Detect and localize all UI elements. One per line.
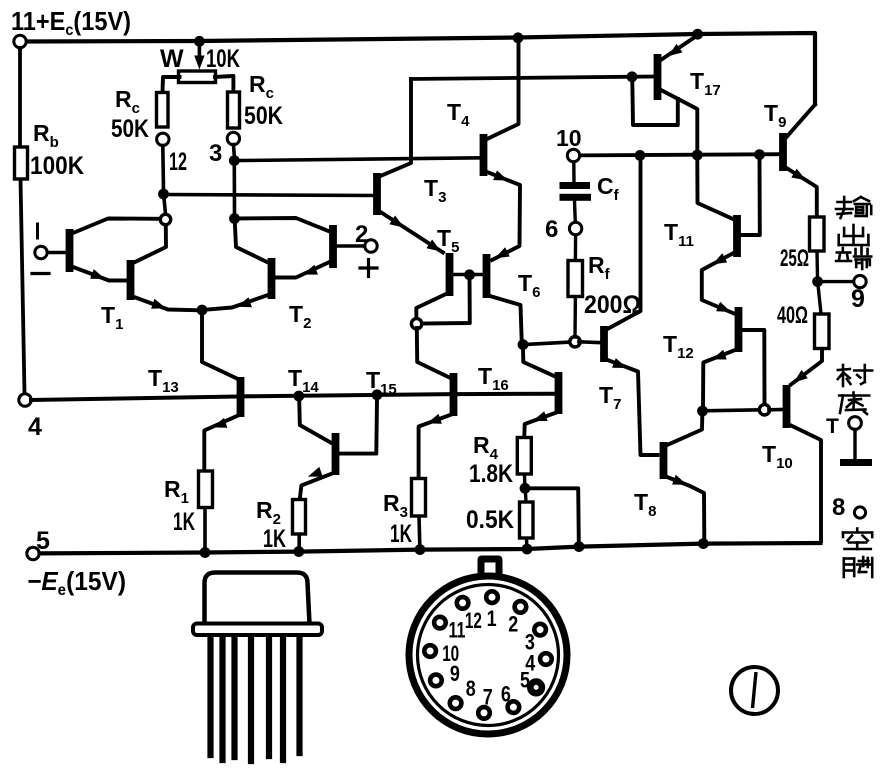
transistor T5 bar	[446, 253, 454, 296]
T3 emitter to T5	[381, 212, 444, 253]
wiper arrow of W	[194, 44, 204, 70]
svg-text:Rf: Rf	[588, 252, 611, 283]
junction node 3	[229, 155, 240, 166]
svg-text:50K: 50K	[111, 115, 149, 143]
transistor T14 bar	[332, 433, 340, 475]
wire W right to Rc right	[215, 76, 233, 91]
svg-text:12: 12	[465, 608, 482, 633]
package can body	[205, 573, 310, 625]
wire Rf node to T7 base	[579, 340, 600, 344]
svg-text:7: 7	[483, 685, 493, 710]
svg-text:1K: 1K	[263, 525, 286, 553]
junction T6 emitter node	[518, 339, 529, 350]
pinout pin numbers	[442, 606, 536, 710]
resistor R2 1K	[293, 500, 306, 535]
svg-text:10: 10	[442, 641, 459, 666]
junction below R4	[520, 483, 531, 494]
terminal 3	[227, 132, 239, 144]
left supply wire 11 to 4	[20, 48, 25, 393]
svg-text:W: W	[160, 45, 184, 73]
junction rail T4	[513, 32, 524, 43]
wire Cf to terminal 6	[573, 201, 577, 222]
wire R1 to -Ee rail	[203, 508, 207, 549]
svg-text:T1: T1	[101, 302, 123, 333]
wire junction right down to rail	[525, 488, 579, 543]
bias rail 4	[31, 394, 555, 400]
wire R4 to junction	[523, 475, 527, 486]
transistor T13 bar	[237, 377, 245, 417]
transistor T16 bar	[555, 372, 563, 414]
T17 emitter from rail	[662, 37, 696, 60]
label T6	[518, 270, 540, 301]
junction node 3 lower	[229, 213, 240, 224]
transistor T2 bar	[268, 258, 276, 299]
T6 lower path down	[490, 296, 522, 341]
junction node 9	[812, 276, 823, 287]
substrate terminal	[849, 417, 862, 430]
svg-text:T17: T17	[690, 68, 721, 99]
terminal 5	[27, 547, 39, 559]
svg-text:T12: T12	[663, 331, 694, 362]
resistor Rc right 50K	[228, 92, 240, 128]
wire terminal 2 to input transistor 2	[337, 244, 365, 248]
label plus	[360, 260, 377, 277]
T1 emitter to common node	[134, 297, 198, 310]
wire 0.5K to -Ee rail	[525, 539, 529, 547]
negative rail -Ee	[40, 543, 821, 553]
label T3	[424, 175, 446, 206]
wire 25ohm to node9	[815, 252, 819, 278]
resistor 0.5K	[520, 502, 534, 538]
junction ring T12 collector	[759, 405, 769, 415]
terminal 12	[157, 133, 169, 145]
junction T15 rail	[372, 389, 383, 400]
svg-text:3: 3	[209, 140, 222, 167]
wire 78 to T17 base	[411, 77, 654, 80]
junction node155 T11	[754, 149, 765, 160]
transistor T7 bar	[600, 326, 608, 362]
junction R1 rail	[200, 547, 211, 558]
label minus	[32, 272, 49, 275]
transistor T3 bar	[373, 173, 381, 215]
label R2	[256, 497, 281, 528]
figure mark 1 in circle	[731, 667, 778, 714]
transistor T8 bar	[660, 442, 668, 479]
svg-text:5: 5	[520, 668, 530, 693]
package leads	[211, 637, 300, 761]
terminal 4	[19, 394, 31, 406]
label T14	[288, 365, 319, 396]
terminal 2	[365, 240, 377, 252]
label 5	[36, 527, 50, 555]
wire T6 node down to T16	[523, 348, 555, 376]
label 4	[28, 413, 42, 441]
label Rb	[33, 120, 59, 151]
resistor 25ohm	[810, 217, 825, 251]
svg-text:T8: T8	[634, 489, 656, 520]
wire terminal 10 down to Cf	[572, 162, 576, 183]
svg-text:2: 2	[355, 221, 368, 248]
wire T14 base	[299, 398, 330, 443]
label 2	[355, 221, 368, 248]
svg-text:Rc: Rc	[115, 86, 140, 117]
terminal 11	[14, 35, 26, 47]
label T2	[289, 301, 311, 332]
resistor R3 1K	[412, 479, 426, 517]
pinout pins	[424, 591, 551, 718]
junction ring left input	[160, 214, 170, 224]
40ohm to T10 emitter	[791, 349, 822, 385]
transistor T1 bar	[127, 260, 135, 300]
wire junction to 0.5K	[524, 490, 528, 502]
pinout inner circle	[418, 585, 559, 726]
pinout tab	[478, 556, 503, 575]
junction Rf bottom	[570, 337, 580, 347]
svg-text:2: 2	[508, 611, 518, 636]
svg-text:10: 10	[556, 125, 582, 151]
wire 155 terminal10 to T9 base	[580, 154, 779, 155]
input tr2 collector to node 3	[235, 218, 330, 232]
wire R3 to -Ee rail	[417, 517, 421, 547]
transistor T15 bar	[450, 373, 458, 416]
label 10	[556, 125, 582, 151]
label 1K R3	[390, 520, 412, 548]
label 1	[36, 224, 39, 238]
svg-text:12: 12	[169, 148, 187, 176]
package flange	[193, 624, 322, 636]
terminal 1	[35, 246, 47, 258]
label T12	[663, 331, 694, 362]
resistor R1 1K	[199, 471, 213, 508]
T9 emitter to 25ohm	[787, 168, 817, 216]
resistor Rc left 50K	[157, 93, 169, 128]
input tr2 emitter to T2 base	[277, 262, 330, 278]
label 6	[545, 216, 558, 243]
label T4	[447, 99, 470, 130]
wire ring to T10 base	[769, 408, 783, 412]
svg-text:6: 6	[501, 681, 511, 706]
T9 collector to +Ec corner	[787, 105, 816, 138]
wire terminal 6 to Rf	[574, 235, 578, 260]
junction T8 T12 node	[697, 406, 708, 417]
T2 collector to node 3	[235, 222, 268, 263]
svg-text:T3: T3	[424, 175, 446, 206]
junction R4branch rail	[574, 541, 585, 552]
T17 collector down to node155	[661, 90, 697, 151]
T1 collector to node12 ring	[134, 225, 166, 263]
wire node 12 to T3 base	[164, 195, 374, 196]
terminal 10	[567, 149, 579, 161]
T10 collector to rail corner	[790, 425, 821, 541]
label 50K right	[244, 102, 283, 130]
label W	[160, 45, 184, 73]
transistor T9 bar	[779, 133, 787, 171]
svg-text:8: 8	[466, 676, 476, 701]
svg-text:Rb: Rb	[33, 120, 59, 151]
T5 lower path to ring	[416, 294, 446, 319]
capacitor Cf	[560, 182, 592, 201]
wire node 12 down	[161, 146, 165, 191]
svg-text:−Ee(15V): −Ee(15V)	[27, 566, 126, 599]
T13 emitter to R1	[204, 416, 237, 470]
wire node9 to terminal 9	[821, 280, 854, 283]
junction ring T5 node	[411, 319, 421, 329]
junction R3 rail	[415, 544, 426, 555]
svg-text:T2: T2	[289, 301, 311, 332]
label 8	[832, 494, 845, 521]
junction common emitters T1 T2	[197, 305, 208, 316]
resistor R4 1.8K	[517, 438, 531, 475]
substrate label T	[826, 415, 839, 438]
potentiometer W 10K	[179, 71, 216, 83]
svg-text:T13: T13	[148, 365, 179, 396]
svg-text:R1: R1	[164, 476, 189, 507]
junction T8 rail	[698, 538, 709, 549]
wire node9 to 40ohm	[818, 285, 821, 314]
svg-text:9: 9	[851, 285, 865, 313]
wire node 3 down to T2 node	[233, 164, 237, 214]
wire node to Rf node	[523, 342, 571, 345]
svg-text:11: 11	[449, 617, 466, 642]
junction T5 T6	[464, 269, 475, 280]
label T15	[366, 367, 397, 398]
transistor T12 bar	[735, 307, 743, 352]
svg-text:1K: 1K	[390, 520, 412, 548]
label T17	[690, 68, 721, 99]
terminal 6	[569, 222, 581, 234]
svg-text:R3: R3	[383, 490, 408, 521]
svg-text:1.8K: 1.8K	[469, 460, 513, 488]
svg-text:T10: T10	[762, 441, 793, 472]
junction node155 T17	[692, 150, 703, 161]
transistor T11 bar	[733, 215, 741, 257]
resistor Rb 100K	[15, 147, 28, 179]
wire W left to Rc left	[163, 77, 180, 92]
svg-text:T11: T11	[664, 219, 694, 250]
label 40ohm	[777, 302, 808, 329]
label Rf	[588, 252, 611, 283]
resistor Rf 200	[568, 261, 583, 297]
junction T14 base	[293, 391, 304, 402]
label 25ohm	[780, 245, 809, 272]
T16 emitter to R4	[524, 411, 555, 436]
wire node 3 down	[232, 145, 237, 157]
svg-text:T6: T6	[518, 270, 540, 301]
T12 emitter to T8 node	[703, 350, 735, 406]
wire Rf down to node	[573, 297, 577, 337]
svg-text:100K: 100K	[30, 152, 84, 180]
junction top rail at W wiper	[194, 36, 205, 47]
label 1K R1	[173, 508, 195, 536]
svg-text:Rc: Rc	[249, 71, 274, 102]
svg-text:25Ω: 25Ω	[780, 245, 809, 272]
label T1	[101, 302, 123, 333]
svg-text:1K: 1K	[173, 508, 195, 536]
transistor T10 bar	[783, 385, 791, 428]
label 3	[209, 140, 222, 167]
svg-text:R4: R4	[473, 432, 499, 463]
T15 emitter to R3	[419, 414, 450, 478]
svg-text:T7: T7	[599, 382, 621, 413]
T4 top to +Ec rail	[487, 42, 519, 139]
label chendi (substrate)	[838, 365, 872, 414]
T14 collector loop	[340, 399, 378, 454]
svg-text:4: 4	[28, 413, 42, 441]
label T7	[599, 382, 621, 413]
wire node to T10 base	[703, 410, 760, 411]
T8 collector up	[667, 415, 702, 445]
label T8	[634, 489, 656, 520]
T3 collector up to wire78	[381, 79, 412, 176]
wire ring down to T15	[417, 328, 450, 378]
power rail +Ec (terminal 11 to top-right corner)	[20, 33, 815, 104]
label 0.5K	[466, 506, 514, 534]
label T9	[764, 100, 786, 131]
junction 0.5K rail	[522, 544, 533, 555]
svg-text:T9: T9	[764, 100, 786, 131]
svg-text:6: 6	[545, 216, 558, 243]
label 1K R2	[263, 525, 286, 553]
label R3	[383, 490, 408, 521]
svg-text:R2: R2	[256, 497, 281, 528]
transistor T6 bar	[483, 254, 491, 298]
input tr1 emitter to T1 base	[73, 267, 127, 281]
wire junction down to left ring	[421, 276, 470, 324]
label shuchuduan (output terminal)	[836, 197, 871, 269]
svg-text:1: 1	[487, 606, 497, 631]
label 1.8K	[469, 460, 513, 488]
svg-text:8: 8	[832, 494, 845, 521]
svg-text:5: 5	[36, 527, 50, 555]
label R1	[164, 476, 189, 507]
svg-text:11+Ec(15V): 11+Ec(15V)	[11, 6, 131, 39]
wire node 3 to T4 base	[234, 158, 479, 161]
wire R2 to -Ee rail	[297, 535, 301, 549]
wire T5-T6 link	[453, 273, 483, 277]
T8 emitter down to rail	[667, 475, 704, 540]
label -Ee(15V)	[27, 566, 126, 599]
label 9	[851, 285, 865, 313]
T4 bottom path to T6	[487, 170, 520, 260]
T14 emitter to R2	[300, 467, 332, 499]
label 11+Ec(15V)	[11, 6, 131, 39]
T11 base wire	[697, 159, 733, 219]
label 100K	[30, 152, 84, 180]
label 10K	[206, 45, 240, 73]
terminal 9	[854, 275, 866, 287]
label Rc right	[249, 71, 274, 102]
label 12	[169, 148, 187, 176]
label T11	[664, 219, 694, 250]
hook wire	[632, 80, 678, 125]
transistor T4 bar	[480, 134, 488, 176]
wire terminal 1 to input transistor	[48, 251, 67, 255]
junction rail T17	[692, 29, 703, 40]
input transistor 1 bar	[66, 229, 74, 272]
label kongjiao (empty pin)	[843, 529, 872, 578]
svg-text:40Ω: 40Ω	[777, 302, 808, 329]
wire common node down to T13	[202, 314, 237, 379]
label 200	[584, 291, 641, 319]
label 50K left	[111, 115, 149, 143]
T11 emitter to T12 base	[702, 253, 734, 314]
label T5	[437, 225, 459, 256]
svg-text:0.5K: 0.5K	[466, 506, 514, 534]
label T13	[148, 365, 179, 396]
svg-text:T4: T4	[447, 99, 470, 130]
input tr1 collector to node12 ring	[73, 219, 160, 234]
input transistor 2 bar	[329, 225, 337, 268]
substrate stem	[853, 430, 856, 459]
junction R2 rail	[293, 546, 304, 557]
svg-text:50K: 50K	[244, 102, 283, 130]
junction node 12	[158, 189, 169, 200]
T12 collector loop down	[743, 330, 765, 404]
svg-text:T14: T14	[288, 365, 319, 396]
pinout outer circle	[409, 576, 567, 734]
T2 emitter to common node	[206, 295, 268, 310]
label T16	[478, 363, 509, 394]
svg-text:T: T	[826, 415, 839, 438]
label R4	[473, 432, 499, 463]
label Cf	[597, 173, 620, 204]
wire node12 junction down to ring	[164, 198, 166, 214]
junction node155 T7	[635, 150, 646, 161]
label T10	[762, 441, 793, 472]
T11 collector loop	[741, 158, 760, 235]
svg-text:Cf: Cf	[597, 173, 620, 204]
transistor T17 bar	[654, 54, 662, 100]
terminal 8	[854, 507, 865, 518]
svg-text:10K: 10K	[206, 45, 240, 73]
svg-text:T16: T16	[478, 363, 509, 394]
T7 emitter to T8 base	[608, 358, 658, 455]
substrate electrode	[840, 459, 872, 466]
junction wire78 hook	[627, 71, 638, 82]
T7 collector up to node155	[608, 160, 641, 329]
resistor 40ohm	[815, 314, 830, 349]
label Rc left	[115, 86, 140, 117]
